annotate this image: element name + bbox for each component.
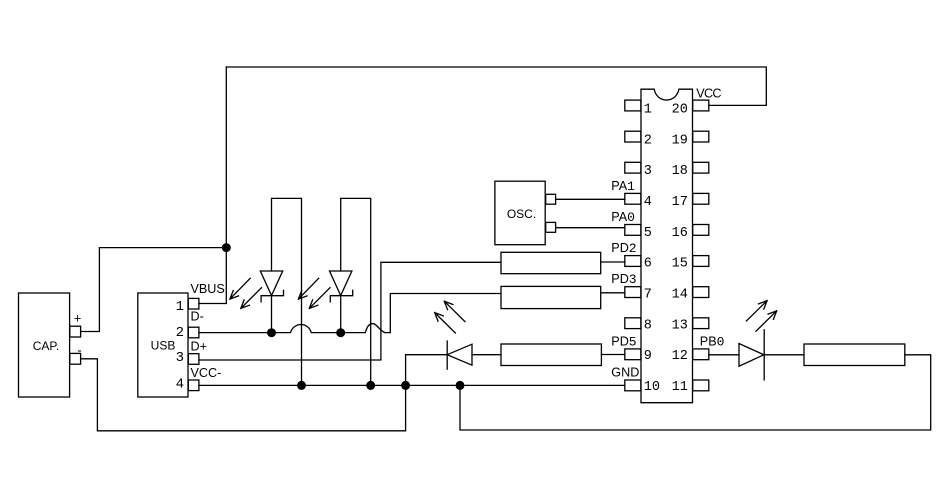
svg-text:PA1: PA1: [611, 179, 635, 194]
wire D- from USB pin2 with hops: [199, 294, 501, 333]
svg-text:19: 19: [672, 133, 688, 148]
wire PD3 resistor to pin 7: [601, 292, 625, 294]
USB pin 3 square: [188, 354, 199, 365]
IC pin 8 square: [625, 318, 641, 329]
svg-text:OSC.: OSC.: [507, 207, 536, 221]
USB pin 4 square: [188, 380, 199, 391]
svg-text:+: +: [74, 310, 82, 325]
wire R4 to bottom-right rail: [460, 355, 931, 430]
node D- zener1 junction: [267, 328, 276, 337]
wire USB pin1 VBUS up to top rail: [199, 67, 226, 304]
IC pin 12 square: [693, 349, 709, 360]
svg-text:6: 6: [644, 257, 652, 272]
IC pin 1 square: [625, 100, 641, 111]
wire OSC pin A to IC pin 4: [556, 198, 625, 200]
LED D4 triangle: [739, 344, 764, 367]
wire zener D2 cathode to D-: [340, 296, 342, 333]
wire PD2 resistor to pin 6: [601, 261, 625, 263]
zener D2 light arrow b: [309, 288, 330, 309]
wire D+ from USB pin3 up to PD2 resistor: [199, 262, 501, 360]
svg-text:VCC: VCC: [696, 86, 721, 100]
svg-text:18: 18: [672, 164, 688, 179]
svg-text:D-: D-: [191, 310, 204, 324]
svg-text:5: 5: [644, 226, 652, 241]
node VBUS junction: [222, 243, 231, 252]
USB connector body: [138, 293, 188, 397]
wire VCC- GND rail USB pin4 to IC pin10: [199, 384, 625, 386]
CAP minus pin: [70, 353, 81, 364]
IC pin 19 square: [693, 131, 709, 142]
node GND LED return: [456, 381, 465, 390]
svg-text:1: 1: [176, 299, 184, 315]
wire GND node up to photodiode: [406, 355, 448, 386]
CAP plus pin: [70, 326, 81, 337]
LED D4 light arrow a: [746, 301, 767, 321]
svg-text:USB: USB: [151, 339, 176, 353]
wire PD5 resistor to pin 9: [601, 354, 624, 356]
USB pin 2 square: [188, 327, 199, 338]
svg-text:11: 11: [672, 380, 688, 395]
svg-text:9: 9: [644, 349, 652, 364]
IC pin 9 square: [625, 349, 641, 360]
svg-text:PD3: PD3: [611, 272, 636, 287]
LED D4 light arrow b: [756, 311, 777, 331]
svg-text:D+: D+: [191, 339, 207, 353]
zener D1 top loop wire: [272, 198, 302, 385]
zener D1 light arrow b: [241, 288, 262, 309]
svg-text:PA0: PA0: [611, 210, 635, 225]
svg-text:PB0: PB0: [700, 335, 725, 350]
OSC pin B square: [546, 222, 556, 232]
IC U1 body with notch: [641, 89, 693, 403]
wire LED to resistor R4: [764, 354, 804, 356]
node D- zener2 junction: [336, 328, 345, 337]
photodiode D3 light arrow b: [435, 313, 456, 333]
svg-text:13: 13: [672, 318, 688, 333]
zener D2 light arrow a: [298, 278, 318, 299]
svg-text:4: 4: [176, 376, 184, 392]
node GND zener1: [297, 381, 306, 390]
OSC pin A square: [546, 194, 556, 204]
wire pin 12 PB0 to LED: [709, 354, 739, 356]
zener D1 light arrow a: [230, 278, 250, 299]
svg-text:3: 3: [176, 350, 184, 366]
svg-text:8: 8: [644, 318, 652, 333]
wire zener D1 cathode to D-: [271, 296, 273, 333]
svg-text:GND: GND: [611, 365, 639, 379]
photodiode D3 triangle: [447, 344, 472, 365]
IC pin 17 square: [693, 193, 709, 204]
node GND photodiode branch: [401, 381, 410, 390]
IC pin 6 square: [625, 256, 641, 267]
zener D2 top loop wire: [341, 198, 371, 385]
svg-text:4: 4: [644, 195, 652, 210]
resistor R2 (PD3): [501, 286, 601, 308]
capacitor CAP body: [19, 293, 70, 397]
svg-text:7: 7: [644, 288, 652, 303]
resistor R4 (PB0): [804, 344, 905, 366]
USB pin 1 square: [188, 298, 199, 309]
svg-text:VBUS: VBUS: [191, 282, 225, 296]
IC pin 13 square: [693, 318, 709, 329]
zener D1 bar: [261, 290, 283, 302]
svg-text:VCC-: VCC-: [191, 366, 222, 380]
IC pin 15 square: [693, 256, 709, 267]
photodiode D3 bar: [446, 341, 448, 369]
svg-text:17: 17: [672, 195, 688, 210]
svg-text:-: -: [77, 342, 81, 357]
svg-text:PD5: PD5: [611, 334, 636, 349]
IC pin 16 square: [693, 225, 709, 236]
wire OSC pin B to IC pin 5: [556, 227, 625, 229]
svg-text:3: 3: [644, 164, 652, 179]
IC pin 2 square: [625, 131, 641, 142]
svg-text:2: 2: [176, 325, 184, 341]
IC pin 20 square: [693, 100, 709, 111]
IC pin 14 square: [693, 287, 709, 298]
zener D2 bar: [330, 290, 352, 302]
zener D1 triangle: [260, 271, 282, 296]
IC pin 18 square: [693, 162, 709, 173]
IC pin 5 square: [625, 225, 641, 236]
oscillator OSC body: [495, 181, 545, 245]
svg-text:20: 20: [672, 102, 688, 117]
zener D2 triangle: [330, 271, 352, 296]
node GND zener2: [366, 381, 375, 390]
wire CAP minus to bottom-left rail: [81, 359, 405, 431]
wire photodiode to PD5 resistor: [472, 354, 501, 356]
IC pin 10 square: [625, 380, 641, 391]
IC pin 3 square: [625, 162, 641, 173]
IC pin 11 square: [693, 380, 709, 391]
resistor R3 (PD5): [501, 344, 601, 366]
IC pin 7 square: [625, 287, 641, 298]
svg-text:1: 1: [644, 102, 652, 117]
svg-text:12: 12: [672, 349, 688, 364]
svg-text:14: 14: [672, 288, 688, 303]
svg-text:CAP.: CAP.: [33, 339, 59, 353]
photodiode D3 light arrow a: [444, 301, 465, 321]
svg-text:15: 15: [672, 257, 688, 272]
LED D4 bar: [763, 330, 765, 380]
resistor R1 (PD2): [501, 252, 601, 273]
svg-text:16: 16: [672, 226, 688, 241]
svg-text:2: 2: [644, 133, 652, 148]
wire top rail to VCC pin 20: [226, 67, 766, 105]
wire CAP plus to VBUS node: [81, 248, 226, 332]
svg-text:10: 10: [644, 380, 660, 395]
IC pin 4 square: [625, 193, 641, 204]
svg-text:PD2: PD2: [611, 241, 636, 256]
